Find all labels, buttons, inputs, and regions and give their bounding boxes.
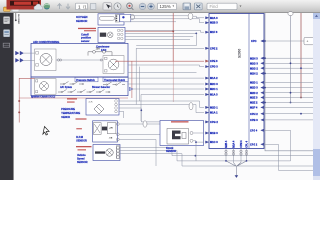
svg-text:A/C Sytem: A/C Sytem xyxy=(60,86,72,89)
svg-text:SENSOR: SENSOR xyxy=(166,150,176,153)
toolbar nav buttons xyxy=(58,4,62,9)
svg-text:CPG 2: CPG 2 xyxy=(210,120,218,124)
rpm sensor wires xyxy=(119,122,200,166)
svg-text:TEMPERATURE: TEMPERATURE xyxy=(61,112,80,115)
red wire vertical x=173 xyxy=(172,13,174,102)
svg-text:M2H 2: M2H 2 xyxy=(250,72,258,76)
right bus vertical x287 xyxy=(290,13,292,103)
junction dots on buses xyxy=(264,57,302,114)
svg-text:CPJ 4: CPJ 4 xyxy=(250,128,258,132)
15A fuse xyxy=(88,48,113,61)
Pressure Switch label xyxy=(75,77,98,81)
svg-text:-VE: -VE xyxy=(109,138,113,140)
pressure switch contacts xyxy=(60,81,84,84)
zoom level dropdown xyxy=(158,3,177,9)
AIR CONDITIONING outer box xyxy=(31,40,128,77)
svg-text:M1F 3: M1F 3 xyxy=(210,30,218,34)
svg-text:M2A 3: M2A 3 xyxy=(210,16,218,20)
svg-text:CPM 4: CPM 4 xyxy=(240,140,243,148)
red overlay window (clipped) xyxy=(7,0,42,10)
right pin wires ladder xyxy=(264,58,313,120)
A/C Sytem label xyxy=(60,86,72,89)
Speed arabic label (red) xyxy=(76,146,92,150)
svg-text:/1: /1 xyxy=(83,4,87,9)
svg-text:SENSOR: SENSOR xyxy=(77,161,88,164)
junction dot and drop on cutoff wire xyxy=(136,33,197,46)
svg-text:M1A 1: M1A 1 xyxy=(210,111,218,115)
maroon horizontal below AC boxes xyxy=(19,97,128,99)
junction dot pressure xyxy=(140,109,142,111)
CPC wire to relay box xyxy=(264,40,304,42)
oxygen sensor box xyxy=(98,14,124,25)
Blower Selector label xyxy=(92,86,110,89)
save icon xyxy=(183,3,191,10)
svg-text:15A: 15A xyxy=(96,48,101,51)
right bus vertical maroon x301 xyxy=(300,13,302,98)
speed sensor wires to bottom buses xyxy=(120,148,313,167)
find box xyxy=(207,3,242,9)
Knock SENSOR label xyxy=(166,147,176,153)
svg-text:CPJ 2: CPJ 2 xyxy=(250,142,258,146)
svg-text:CPE 2: CPE 2 xyxy=(210,46,218,50)
wire step to pin M2B xyxy=(200,19,205,23)
cutoff sensor arabic label (red) xyxy=(78,28,96,32)
toolbar icon: globe xyxy=(44,3,50,9)
svg-text:M2D 3: M2D 3 xyxy=(250,86,258,90)
red wire from relay to CPE3 pin xyxy=(115,60,204,62)
RPM arabic label (red) xyxy=(76,118,87,129)
pressure temperature sensor box xyxy=(86,99,119,116)
thermostat clutch contacts xyxy=(103,82,125,85)
svg-text:M1A 3: M1A 3 xyxy=(210,93,218,97)
sidebar icon: layers xyxy=(3,43,9,47)
lower contacts row xyxy=(58,89,110,92)
knock sensor wires xyxy=(193,133,204,161)
svg-text:CPD 3: CPD 3 xyxy=(210,65,218,69)
svg-text:M1B 3: M1B 3 xyxy=(210,131,218,135)
toolbar icon: cloud xyxy=(34,4,43,10)
wire motor to relay xyxy=(56,59,103,61)
scrollbar xyxy=(313,13,320,180)
cutoff sensor wires to ECU xyxy=(125,30,204,39)
svg-text:Pressure Switch: Pressure Switch xyxy=(76,79,95,82)
svg-text:M2D 2: M2D 2 xyxy=(250,91,258,95)
oxygen sensor wires xyxy=(124,16,200,22)
svg-text:SENCR: SENCR xyxy=(61,116,70,119)
svg-text:Thermostat Clutch: Thermostat Clutch xyxy=(104,79,126,82)
knock junction dot xyxy=(195,141,197,143)
svg-text:M2G 3: M2G 3 xyxy=(250,61,258,65)
S2000 label rotated xyxy=(238,49,242,58)
AC switches box xyxy=(31,77,128,96)
knock sensor terminals xyxy=(190,132,193,143)
OXYGEN SENSOR label xyxy=(76,15,88,23)
connector oval on pressure wires xyxy=(189,103,193,110)
small relay box at right edge xyxy=(304,37,314,44)
svg-text:Find: Find xyxy=(210,4,219,9)
connector triangles into AC box xyxy=(16,51,24,62)
Condenser FAN label xyxy=(96,45,110,52)
page number field xyxy=(76,3,88,9)
wires from triangles to AC box xyxy=(23,53,34,60)
svg-text:+: + xyxy=(307,40,309,44)
clock icon xyxy=(114,3,121,10)
CPD3 left corner drop xyxy=(139,67,141,101)
svg-text:Blower Selector: Blower Selector xyxy=(92,86,110,89)
cutoff position sensor box xyxy=(98,27,125,42)
svg-text:SENSOR: SENSOR xyxy=(76,19,87,23)
red wire horizontal to cutoff sensor xyxy=(122,30,173,32)
folder icon xyxy=(4,7,20,12)
knock sensor outer box xyxy=(160,121,204,146)
Cutoff position sensor label xyxy=(81,32,92,42)
zoom in button xyxy=(148,3,155,10)
oxygen connector cell with dot xyxy=(120,14,131,21)
wire from oval to pin M2A xyxy=(193,16,204,18)
svg-text:M2E 2: M2E 2 xyxy=(250,101,258,105)
Vehicle Speed SENSOR label xyxy=(77,154,88,164)
AC relay xyxy=(103,56,124,74)
Thermostat Clutch label xyxy=(103,77,128,81)
top edge connector bump xyxy=(288,12,293,16)
CPE2 wire corner xyxy=(136,48,204,104)
svg-text:M1C 3: M1C 3 xyxy=(210,140,218,144)
sidebar icon: bookmarks xyxy=(3,30,9,37)
buffer arrow on wire xyxy=(129,87,133,91)
svg-text:M2C 1: M2C 1 xyxy=(210,87,218,91)
sidebar panel xyxy=(0,13,14,180)
svg-text:M2G 2: M2G 2 xyxy=(250,66,258,70)
R.P.M SENSOR label xyxy=(76,136,87,142)
toolbar background xyxy=(0,0,320,13)
small icon after page field xyxy=(91,3,96,9)
svg-text:CPB 3: CPB 3 xyxy=(250,118,258,122)
ECU bottom rotated pin labels xyxy=(225,140,249,148)
junction dot on bottom bus xyxy=(195,155,197,157)
svg-text:CPC: CPC xyxy=(251,39,257,43)
svg-text:AIR CONDITIONING: AIR CONDITIONING xyxy=(33,40,59,44)
PRESSURE TEMPERATURE SENSOR label xyxy=(61,108,80,119)
svg-text:1: 1 xyxy=(78,4,81,9)
svg-text:PRESSURE: PRESSURE xyxy=(61,108,75,111)
knock sensor red label xyxy=(171,121,189,122)
svg-text:M2H 3: M2H 3 xyxy=(250,56,258,60)
ECU bottom pin stubs with connector circles xyxy=(226,149,247,163)
svg-text:M2B 4: M2B 4 xyxy=(225,140,228,148)
select tool icon xyxy=(103,3,111,10)
PRESSURE TEMP SENSOR arabic label (red) xyxy=(67,98,77,102)
svg-text:Speed: Speed xyxy=(77,157,85,160)
zoom out button xyxy=(139,3,146,10)
ECU left pins xyxy=(206,16,219,144)
ground funnel below ECU xyxy=(226,161,247,176)
magnifier icon xyxy=(127,3,134,10)
svg-text:sensor: sensor xyxy=(81,39,90,43)
svg-text:M2B 3: M2B 3 xyxy=(210,21,218,25)
connector oval on rpm wire xyxy=(143,121,147,127)
svg-text:S2000: S2000 xyxy=(238,49,242,58)
maroon drop from CPE3 wire xyxy=(131,61,133,98)
svg-text:CPE 3: CPE 3 xyxy=(210,59,218,63)
svg-text:BLOWER: BLOWER xyxy=(17,14,19,24)
knock sensor inner device xyxy=(167,129,189,145)
svg-text:M2D 1: M2D 1 xyxy=(250,81,258,85)
ground triangle xyxy=(235,175,239,178)
connector oval right of dot cell xyxy=(130,14,134,20)
svg-text:OXYGEN: OXYGEN xyxy=(76,15,88,19)
sidebar icon: pages xyxy=(3,17,9,24)
funnel junction dots xyxy=(225,160,247,162)
CPJ4 wire xyxy=(264,130,291,161)
red feed wire left xyxy=(18,78,34,122)
pressure sensor wires xyxy=(119,101,204,122)
inline connector oval on wire xyxy=(188,13,193,19)
ignition clutch switch unit xyxy=(35,79,57,95)
CPJ2 wire xyxy=(264,144,313,170)
svg-text:M2D 1: M2D 1 xyxy=(210,105,218,109)
condenser fan motor xyxy=(35,49,60,71)
vehicle speed sensor box xyxy=(93,145,120,161)
svg-text:M2C 3: M2C 3 xyxy=(210,82,218,86)
svg-text:CPH 2: CPH 2 xyxy=(250,112,258,116)
svg-text:M1A 4: M1A 4 xyxy=(232,140,235,148)
mouse cursor xyxy=(43,127,49,136)
Ignition Clutch (ACC) label xyxy=(31,96,55,99)
wires AC to ECU left pins xyxy=(128,65,204,121)
ECU right pins xyxy=(250,39,264,146)
right bus vertical x265 xyxy=(265,13,313,151)
svg-text:Vehicle: Vehicle xyxy=(77,154,86,157)
svg-text:SENSOR: SENSOR xyxy=(76,139,87,142)
svg-text:CPL 4: CPL 4 xyxy=(245,140,248,147)
close/window icon xyxy=(195,3,203,10)
document page xyxy=(14,13,314,180)
svg-text:125%: 125% xyxy=(160,4,171,9)
svg-text:+VE: +VE xyxy=(109,128,114,130)
svg-text:M2E 3: M2E 3 xyxy=(250,96,258,100)
svg-text:M1A 2: M1A 2 xyxy=(210,76,218,80)
ECU box xyxy=(209,14,264,149)
svg-text:M2F 4: M2F 4 xyxy=(250,106,258,110)
rpm sensor box xyxy=(93,121,120,142)
wire stub top-left with label xyxy=(15,13,19,24)
